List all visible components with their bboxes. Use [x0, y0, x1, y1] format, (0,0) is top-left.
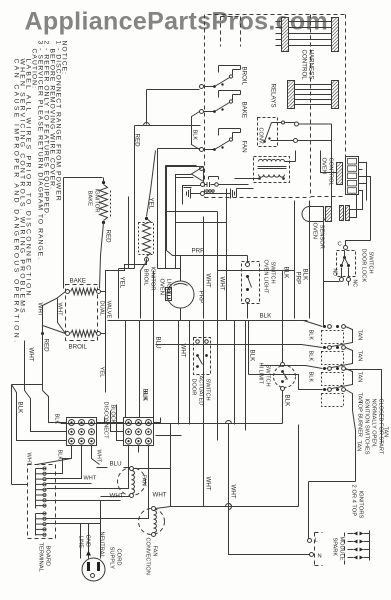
- junction valve: [41, 332, 44, 335]
- wires oven control right: [359, 163, 367, 201]
- svg-text:DUAL: DUAL: [99, 301, 105, 317]
- svg-text:SWITCH: SWITCH: [205, 379, 211, 401]
- svg-text:CONTROL: CONTROL: [301, 50, 308, 81]
- wire YEL left vertical: [118, 269, 120, 319]
- wire transformer left: [235, 178, 259, 180]
- svg-text:CONVECTION: CONVECTION: [145, 538, 151, 575]
- svg-text:TAN: TAN: [356, 441, 362, 452]
- wire nested loop outer: [167, 167, 204, 251]
- svg-text:BROIL: BROIL: [241, 67, 248, 86]
- svg-text:BLK: BLK: [302, 269, 309, 282]
- wire bus x217b: [217, 321, 219, 441]
- svg-text:BLK: BLK: [57, 450, 63, 461]
- spark gap bus: [369, 531, 371, 561]
- junction hops x228: [229, 504, 232, 510]
- svg-text:OVEN: OVEN: [159, 279, 165, 295]
- svg-text:WHT: WHT: [153, 492, 167, 499]
- wire vertical RED x134: [134, 126, 136, 269]
- resistor BAKE IGNITOR: [100, 185, 108, 221]
- convection fan terminals: [152, 507, 156, 511]
- wire door lock left: [324, 229, 340, 282]
- wire sensor right: [350, 206, 363, 210]
- connector control-harness left bar: [282, 18, 289, 52]
- wire WHT fan: [101, 496, 132, 498]
- svg-text:WHT: WHT: [205, 477, 212, 491]
- oven light switch dashed box: [242, 262, 260, 304]
- svg-text:IGNITION SWITCHES: IGNITION SWITCHES: [364, 399, 370, 455]
- svg-text:TOP BURNER: TOP BURNER: [357, 401, 363, 437]
- svg-text:TAN: TAN: [357, 330, 363, 341]
- contact on dashed line: [200, 167, 204, 171]
- svg-text:LIGHT: LIGHT: [166, 279, 172, 297]
- relays connector wires: [295, 84, 332, 86]
- relay aux contacts: [201, 183, 205, 187]
- wire bake valve left: [43, 292, 66, 306]
- svg-text:WHT: WHT: [28, 348, 35, 362]
- terminal board dashed box: [28, 465, 56, 539]
- svg-text:BLK: BLK: [192, 130, 198, 141]
- ignition switch module 1: [323, 325, 326, 328]
- wire BLU: [97, 467, 108, 469]
- wire diag to ignition sw1: [304, 321, 323, 327]
- terminal broil ignitor: [145, 258, 149, 262]
- spark gaps: [348, 533, 354, 535]
- wire broil valve right: [101, 333, 106, 335]
- svg-text:TAN: TAN: [357, 351, 363, 362]
- terminal N: [310, 553, 314, 557]
- wire hi limit top: [282, 321, 284, 363]
- wire bus x234b: [234, 321, 236, 425]
- wires into left block: [43, 391, 67, 423]
- wire bus x245: [245, 321, 247, 431]
- svg-text:GND: GND: [85, 535, 91, 547]
- dashed control board box: [208, 14, 346, 16]
- wire bus x203b: [203, 321, 205, 507]
- wire sensor to door lock: [323, 222, 325, 229]
- lamp OVEN LIGHT: [167, 281, 194, 308]
- wire oven light switch down: [247, 303, 249, 319]
- terminal L: [308, 539, 312, 543]
- coil BROIL valve: [66, 332, 70, 336]
- svg-text:BLU: BLU: [155, 337, 162, 349]
- svg-text:BLK: BLK: [308, 372, 314, 383]
- wire x248 blk: [248, 321, 250, 375]
- wire left horizontal y384: [12, 384, 43, 386]
- ignition switch module 4: [323, 388, 326, 391]
- svg-text:WHT: WHT: [230, 485, 237, 499]
- svg-text:TERMINAL: TERMINAL: [38, 543, 44, 573]
- wire WHT supply: [47, 500, 121, 502]
- oven sensor plug bars: [340, 206, 344, 221]
- relay contact BAKE: [200, 110, 204, 114]
- broil ignitor dashed box: [139, 223, 154, 255]
- svg-text:BLK: BLK: [142, 391, 148, 402]
- terminal board comb upper: [35, 469, 37, 509]
- junction hop: [144, 123, 150, 126]
- wire oven control left: [321, 151, 337, 173]
- wire bus y270 right: [218, 270, 295, 272]
- resistor BROIL IGNITOR: [143, 219, 151, 257]
- terminal board comb lower: [35, 514, 37, 536]
- svg-text:BAKE: BAKE: [241, 102, 248, 119]
- wire bus x178: [178, 321, 180, 425]
- svg-text:NORMALLY OPEN,: NORMALLY OPEN,: [371, 399, 377, 449]
- wire x228 vertical: [229, 424, 312, 555]
- ignition switch module 2: [323, 346, 326, 349]
- svg-text:WHT: WHT: [219, 277, 226, 291]
- door actuated switch contacts: [196, 340, 200, 344]
- dashed oven control box: [345, 15, 347, 197]
- wire WHT mid: [203, 217, 205, 319]
- coil BAKE valve: [66, 290, 70, 294]
- oven control connector bar: [337, 163, 343, 185]
- connector control-harness right bar: [332, 18, 339, 52]
- wire main BLK bus y320: [108, 320, 308, 322]
- wire left vertical x11: [11, 385, 13, 485]
- wire bake ignitor to valve: [100, 223, 104, 289]
- wire top loop: [147, 89, 200, 91]
- ignition switch module 3: [323, 367, 326, 370]
- wire gnd down: [88, 524, 90, 559]
- wire bus x153 upper: [153, 271, 155, 321]
- wire left bus x42: [42, 326, 44, 391]
- fan motor dashed circle: [118, 468, 146, 496]
- convection fan dashed circle: [139, 509, 165, 535]
- svg-text:NC: NC: [352, 280, 358, 288]
- wire hi limit bottom: [282, 391, 284, 424]
- svg-text:WHT: WHT: [57, 303, 63, 317]
- svg-text:RED: RED: [134, 134, 141, 148]
- wire lamp bottom: [180, 309, 182, 321]
- wire PRP horizontal: [167, 211, 218, 213]
- wire aux left loop: [183, 186, 201, 205]
- svg-text:YEL: YEL: [119, 277, 126, 289]
- wire valve right: [101, 291, 106, 293]
- wires below blocks: [37, 446, 72, 465]
- wire conv to bus: [299, 123, 332, 125]
- wire BLK u-link: [192, 112, 200, 150]
- wire bake-ignitor left drop: [63, 178, 65, 289]
- junction dot broil ignitor: [145, 217, 148, 220]
- wire yel from relay: [147, 151, 156, 217]
- wire door lock C: [346, 241, 371, 249]
- wire bus x226: [226, 189, 228, 321]
- wire to sw3 diag: [261, 366, 323, 369]
- lamp base: [166, 288, 172, 301]
- wire horizontal y125: [135, 125, 201, 127]
- svg-text:PRP: PRP: [192, 248, 205, 255]
- wire y365 to sw3: [249, 375, 323, 390]
- door actuated switch dashed box: [194, 338, 211, 375]
- wire PRP run: [167, 251, 248, 256]
- wire valve left bus: [43, 306, 66, 334]
- wires into right block left side: [105, 422, 124, 424]
- svg-text:DOOR LOCK: DOOR LOCK: [361, 249, 367, 283]
- svg-text:VALVE: VALVE: [106, 301, 112, 319]
- svg-text:BOARD: BOARD: [45, 546, 51, 567]
- oven sensor bar: [326, 207, 332, 222]
- wire relay row4: [184, 187, 192, 189]
- wire L terminal: [309, 481, 356, 483]
- svg-text:DOOR: DOOR: [191, 379, 197, 396]
- svg-text:CLOSED FOR START: CLOSED FOR START: [378, 399, 384, 455]
- door lock contacts: [343, 256, 346, 259]
- wire conv fan right vertical: [298, 425, 300, 507]
- wire ign module 3 link: [327, 369, 353, 390]
- wire transformer right: [285, 161, 296, 163]
- svg-text:SWITCH: SWITCH: [270, 262, 276, 284]
- wire bus x217: [217, 212, 219, 321]
- wire LINE down: [80, 524, 82, 559]
- bake ignitor dashed side: [110, 191, 112, 217]
- wires into terminal board: [12, 484, 28, 486]
- svg-text:BLK: BLK: [284, 395, 291, 408]
- svg-text:2 OR 4 TOP: 2 OR 4 TOP: [351, 485, 357, 517]
- transformer core: [258, 166, 287, 168]
- terminal C: [344, 246, 348, 250]
- wire y344: [156, 345, 323, 348]
- wire relay row3: [176, 177, 194, 179]
- transformer primary coil: [259, 159, 285, 161]
- connector relays left bar: [288, 81, 295, 109]
- door lock dashed box: [337, 251, 356, 277]
- svg-text:YEL: YEL: [148, 198, 155, 210]
- svg-text:SUPPLY: SUPPLY: [109, 547, 115, 570]
- wire ign module 2 link: [327, 348, 353, 369]
- wire x323 down: [323, 282, 325, 327]
- wire transformer stub: [236, 189, 238, 198]
- svg-text:PRP: PRP: [295, 272, 302, 285]
- svg-text:C: C: [338, 242, 342, 248]
- relay contact BROIL: [200, 85, 204, 89]
- wire bus x189: [189, 321, 191, 425]
- oven control connector block: [346, 157, 359, 195]
- wire riser x146: [146, 90, 148, 125]
- wire YEL vertical: [128, 197, 130, 269]
- svg-text:BLK: BLK: [308, 351, 314, 362]
- svg-text:WHT: WHT: [84, 476, 97, 482]
- svg-text:SPARK: SPARK: [332, 538, 338, 557]
- wire door lock bottom: [348, 282, 350, 286]
- transformer secondary coil: [259, 175, 285, 178]
- wire x57 wht: [58, 299, 66, 334]
- svg-text:ACTUATED: ACTUATED: [198, 376, 204, 406]
- conv relay switch: [263, 140, 266, 143]
- wire bus y268: [119, 268, 135, 270]
- svg-text:SWITCH: SWITCH: [368, 252, 374, 274]
- dual valve dashed box: [66, 285, 98, 341]
- svg-text:BLU: BLU: [110, 461, 122, 468]
- svg-text:BAKE: BAKE: [87, 191, 93, 207]
- svg-text:ND: ND: [332, 269, 338, 277]
- svg-text:YEL: YEL: [99, 367, 105, 379]
- wire bus x309 BLK: [309, 201, 311, 319]
- wire fan top right: [134, 468, 171, 470]
- svg-text:RED: RED: [105, 230, 112, 244]
- wire relay row2: [166, 165, 197, 167]
- svg-text:WHT: WHT: [26, 453, 32, 466]
- wire x170 vertical: [170, 424, 172, 507]
- junction hop y423: [226, 421, 232, 424]
- svg-text:IGNITOR: IGNITOR: [94, 189, 100, 213]
- junction dot bake ignitor: [102, 181, 105, 184]
- svg-text:BAKE: BAKE: [70, 278, 87, 285]
- transformer dashed box: [254, 157, 290, 183]
- svg-text:SWITCH: SWITCH: [265, 365, 271, 387]
- svg-text:BLK: BLK: [260, 313, 273, 320]
- svg-text:BROIL: BROIL: [69, 344, 88, 351]
- wire ign right: [346, 370, 382, 444]
- wire lamp top: [180, 256, 182, 281]
- junction dot bake ignitor bottom: [102, 221, 105, 224]
- wire neutral down: [100, 501, 102, 559]
- svg-text:FAN: FAN: [152, 546, 158, 557]
- svg-text:TAN: TAN: [357, 372, 363, 383]
- svg-text:OVEN: OVEN: [312, 223, 318, 239]
- svg-text:CORD: CORD: [116, 549, 122, 566]
- convection fan coil: [154, 511, 157, 533]
- ground small marks: [209, 176, 219, 178]
- svg-text:WHT: WHT: [110, 493, 124, 500]
- wire y423 long: [61, 423, 283, 425]
- svg-text:IGNITORS: IGNITORS: [358, 491, 364, 519]
- wire y434: [156, 435, 182, 437]
- wire right edge down to ign: [366, 200, 368, 202]
- ground symbol left sideways: [190, 189, 192, 199]
- wire yel route: [106, 259, 147, 393]
- svg-text:BLK: BLK: [17, 402, 24, 415]
- hi limit contacts: [281, 363, 285, 367]
- svg-text:RELAYS: RELAYS: [270, 84, 277, 108]
- svg-text:BROIL: BROIL: [143, 269, 149, 287]
- svg-text:HARNESS: HARNESS: [308, 50, 315, 80]
- junction hop conv: [226, 504, 232, 507]
- supply cord plug: [82, 558, 105, 581]
- svg-text:NEUTRAL: NEUTRAL: [99, 532, 105, 558]
- wire WHT long right: [217, 430, 219, 432]
- wire top bus to harness: [146, 88, 148, 90]
- wire bundle triangle: [192, 167, 204, 182]
- svg-text:BLK: BLK: [249, 350, 256, 363]
- wire x370 from C: [370, 240, 372, 241]
- svg-text:CAN CAUSE IMPROPER AND DANGERO: CAN CAUSE IMPROPER AND DANGEROUS OPERATI…: [13, 59, 20, 345]
- wire bus y268 right: [158, 268, 181, 270]
- svg-text:IGNITOR: IGNITOR: [150, 267, 156, 291]
- wire broil ignitor down: [141, 262, 147, 319]
- relay aux contacts row2: [201, 192, 205, 196]
- ground symbol right sideways: [230, 189, 232, 199]
- svg-text:OVEN LIGHT: OVEN LIGHT: [263, 260, 269, 294]
- svg-text:WHT: WHT: [96, 450, 102, 463]
- disconnect block left: [67, 418, 97, 446]
- svg-text:DISCONNECT: DISCONNECT: [103, 402, 109, 440]
- spark module dashed box: [314, 533, 316, 566]
- svg-text:BLK: BLK: [283, 267, 290, 280]
- svg-text:BLK: BLK: [308, 330, 314, 341]
- fan motor coil: [132, 471, 135, 494]
- conv relay dashed box: [258, 118, 278, 147]
- wire bus x282 BLK: [282, 271, 284, 321]
- wire conv fan top: [156, 507, 299, 509]
- wire from relay rows to left bus: [158, 148, 200, 150]
- svg-text:CONV.: CONV.: [258, 128, 264, 146]
- svg-text:LINE: LINE: [78, 536, 84, 549]
- oven sensor bulb: [302, 207, 324, 222]
- wire x362 down: [362, 206, 364, 210]
- svg-text:MODULE: MODULE: [339, 537, 345, 561]
- wire left bus x24: [24, 341, 26, 391]
- svg-text:OVEN: OVEN: [321, 158, 327, 174]
- disconnect block right: [124, 418, 154, 446]
- svg-text:WHT: WHT: [205, 274, 212, 288]
- hi limit switch dashed outline: [274, 366, 296, 388]
- control harness wires: [289, 21, 332, 23]
- wire nested loop inner: [176, 175, 227, 223]
- svg-text:RED: RED: [43, 339, 50, 353]
- svg-text:N: N: [318, 554, 322, 560]
- svg-text:FAN: FAN: [241, 141, 248, 153]
- fan motor terminals: [130, 467, 134, 471]
- oven light switch contacts: [246, 263, 250, 267]
- wire ign bottom: [346, 390, 356, 482]
- small dashed box top: [221, 16, 241, 18]
- wire bus x331 down: [324, 141, 332, 229]
- svg-text:WHT: WHT: [180, 344, 187, 358]
- connector relays right bar: [332, 81, 339, 109]
- wire bake-ignitor top: [64, 177, 103, 179]
- wire ign module 1 link: [327, 327, 353, 348]
- wires into right block: [125, 321, 127, 418]
- svg-text:FAN: FAN: [141, 475, 147, 486]
- wires out right of blocks: [97, 418, 105, 423]
- transformer terminals: [258, 177, 261, 180]
- relay contact FAN: [200, 148, 204, 152]
- wire bus x294 PRP: [294, 201, 296, 319]
